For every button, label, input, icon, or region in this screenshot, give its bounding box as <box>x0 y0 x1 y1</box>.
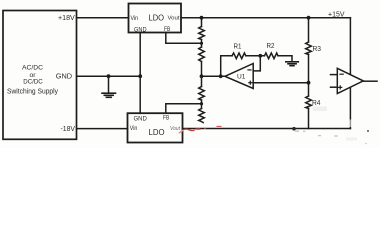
resistor (divider second) <box>199 47 205 62</box>
pin marker plus (U1) <box>249 81 252 84</box>
pin marker minus (right op-amp) <box>340 73 343 75</box>
pin marker minus (U1) <box>248 69 251 71</box>
svg-text:+15V: +15V <box>328 9 345 18</box>
svg-text:Vin: Vin <box>131 16 139 22</box>
junction dot (op-amp output node) <box>200 74 204 78</box>
wire GND supply to LDOs <box>77 75 141 77</box>
ground (system) <box>102 76 116 97</box>
wire U1 output to divider <box>202 75 226 77</box>
pin label GND (top LDO) <box>134 27 147 33</box>
label U1 <box>237 74 246 81</box>
AC/DC supply box <box>3 11 77 140</box>
resistor R1 <box>232 53 246 59</box>
pin label Vin (top LDO) <box>131 16 139 22</box>
wire GND vertical between LDO GND pins <box>139 33 141 114</box>
wire divider node B <box>201 62 203 87</box>
svg-text:U1: U1 <box>237 74 246 81</box>
resistor (divider third) <box>199 87 205 101</box>
wire output (right op-amp) <box>363 80 377 82</box>
junction dot (R3/R4 node) <box>307 81 311 85</box>
label LDO (top) <box>149 13 165 22</box>
label GND (supply) <box>56 71 72 80</box>
wire +15V right drop (supply to right op-amp) <box>349 18 351 129</box>
svg-text:Switching Supply: Switching Supply <box>7 88 58 95</box>
resistor R2 <box>265 53 279 59</box>
svg-text:GND: GND <box>134 116 148 122</box>
faded wire segment (watermark cleanup) <box>349 120 352 128</box>
svg-text:GND: GND <box>56 71 72 80</box>
wire non-inverting input stub (right op-amp) <box>331 86 338 88</box>
wire R3 top lead <box>308 18 310 42</box>
svg-text:Vout: Vout <box>170 126 180 132</box>
svg-text:-18V: -18V <box>61 124 76 133</box>
pin label FB (bottom LDO) <box>163 116 169 122</box>
label +15V <box>328 9 345 18</box>
svg-text:Vout: Vout <box>168 16 180 22</box>
LDO U2 (top) box <box>129 4 182 33</box>
wire divider node C <box>201 100 203 109</box>
wire feedback riser <box>221 56 232 77</box>
label R1 <box>234 41 242 50</box>
wire -15V rail (bottom) <box>183 128 351 130</box>
label +18V <box>58 13 75 22</box>
supply box text <box>7 65 58 96</box>
svg-text:R2: R2 <box>267 41 275 50</box>
junction dot (inverting input node) <box>258 54 262 58</box>
wire FB bottom LDO to divider <box>166 104 202 114</box>
LDO U3 (bottom) box <box>128 113 183 142</box>
svg-text:Vin: Vin <box>130 126 138 132</box>
wire U1 inverting input <box>253 56 260 71</box>
svg-text:FB: FB <box>164 27 170 33</box>
wire divider chain top lead <box>201 18 203 27</box>
label R4 <box>312 98 321 107</box>
svg-text:+18V: +18V <box>58 13 75 22</box>
pin label Vout (bottom LDO, faded) <box>170 126 180 132</box>
pin label Vin (bottom LDO) <box>130 126 138 132</box>
wire +18V supply to LDO1 Vin <box>77 17 129 19</box>
svg-text:LDO: LDO <box>149 128 165 137</box>
wire FB top LDO to divider <box>166 33 202 44</box>
svg-text:LDO: LDO <box>149 13 165 22</box>
svg-text:R4: R4 <box>312 98 321 107</box>
wire R3 to node <box>308 55 310 97</box>
resistor R4 <box>306 96 312 109</box>
junction dot (ground tap) <box>107 74 111 78</box>
red watermark dash <box>217 126 222 127</box>
wire -18V supply to LDO2 Vin <box>77 128 128 130</box>
svg-text:AC/DC: AC/DC <box>22 65 43 72</box>
op-amp U1 (output points left) <box>225 64 253 89</box>
svg-text:DC/DC: DC/DC <box>23 79 43 86</box>
resistor (divider top) <box>199 27 205 40</box>
svg-text:R3: R3 <box>313 44 322 53</box>
label LDO (bottom) <box>149 128 165 137</box>
junction dot (divider top rail) <box>200 16 204 20</box>
wire divider node A <box>201 40 203 48</box>
pin marker plus (right op-amp) <box>339 86 342 89</box>
wire U1 non-inverting input to R3/R4 node <box>253 82 308 84</box>
junction dot (GND wire) <box>138 74 142 78</box>
junction dot (bottom rail artifact) <box>292 127 296 131</box>
red watermark squiggle near bottom LDO Vout <box>178 128 206 133</box>
wire inverting input stub (right op-amp) <box>331 74 338 76</box>
wire R4 bottom lead <box>308 109 310 129</box>
op-amp U4 (right, output points right) <box>337 68 363 93</box>
junction dot (FB bottom node) <box>200 102 203 105</box>
junction dot (R3 top rail) <box>307 16 311 20</box>
wire R1 to R2 <box>246 55 265 57</box>
pin label FB (top LDO) <box>164 27 170 33</box>
ground (R2) <box>286 62 299 66</box>
svg-text:FB: FB <box>163 116 169 122</box>
label R2 <box>267 41 275 50</box>
label -18V <box>61 124 76 133</box>
label R3 <box>313 44 322 53</box>
junction dot (feedback tap) <box>219 74 223 78</box>
resistor (divider bottom) <box>199 109 205 123</box>
junction dot (FB top node) <box>200 42 203 45</box>
pin label Vout (top LDO) <box>168 16 180 22</box>
wire R2 to ground <box>278 56 292 62</box>
grey watermark remnants <box>295 107 369 145</box>
wire +15V rail (top) <box>181 17 350 19</box>
svg-text:R1: R1 <box>234 41 242 50</box>
pin label GND (bottom LDO) <box>134 116 148 122</box>
resistor R3 <box>306 42 312 55</box>
